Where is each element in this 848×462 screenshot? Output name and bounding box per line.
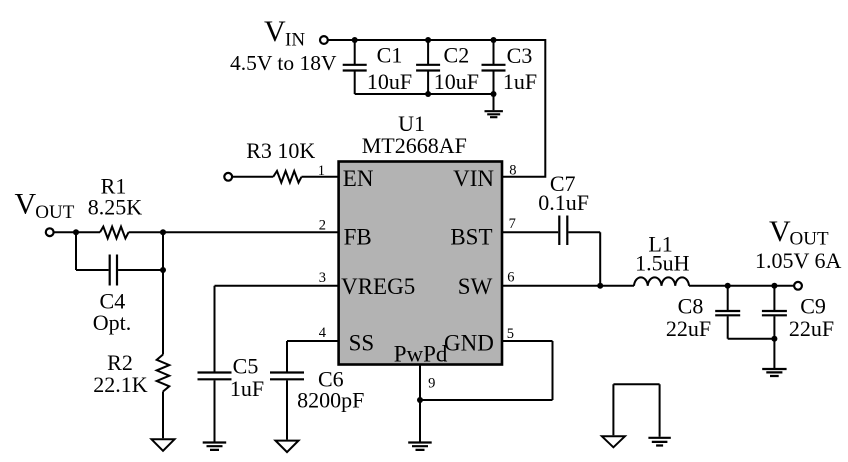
svg-text:OUT: OUT bbox=[790, 229, 829, 250]
svg-text:VREG5: VREG5 bbox=[341, 274, 415, 299]
svg-text:8: 8 bbox=[509, 162, 516, 178]
svg-text:SS: SS bbox=[349, 331, 375, 356]
svg-text:4.5V to 18V: 4.5V to 18V bbox=[230, 51, 337, 75]
svg-text:V: V bbox=[264, 15, 286, 48]
svg-text:EN: EN bbox=[343, 166, 374, 191]
svg-text:FB: FB bbox=[344, 225, 372, 250]
svg-text:0.1uF: 0.1uF bbox=[538, 190, 589, 215]
svg-text:2: 2 bbox=[319, 218, 326, 234]
svg-text:Opt.: Opt. bbox=[93, 310, 132, 335]
svg-text:VIN: VIN bbox=[453, 166, 494, 191]
svg-text:C3: C3 bbox=[507, 43, 533, 68]
svg-text:R3 10K: R3 10K bbox=[246, 138, 315, 163]
svg-text:3: 3 bbox=[319, 270, 326, 286]
svg-text:7: 7 bbox=[509, 216, 516, 232]
svg-text:22.1K: 22.1K bbox=[93, 372, 148, 397]
svg-text:22uF: 22uF bbox=[789, 316, 834, 341]
svg-text:8.25K: 8.25K bbox=[88, 195, 143, 220]
svg-text:4: 4 bbox=[319, 325, 327, 341]
svg-text:OUT: OUT bbox=[35, 202, 74, 223]
svg-text:IN: IN bbox=[285, 30, 305, 51]
svg-text:1uF: 1uF bbox=[230, 376, 264, 401]
svg-text:9: 9 bbox=[428, 376, 435, 392]
svg-text:C5: C5 bbox=[233, 354, 259, 379]
svg-text:C8: C8 bbox=[678, 294, 704, 319]
svg-text:V: V bbox=[769, 215, 791, 248]
svg-text:1.5uH: 1.5uH bbox=[635, 251, 690, 276]
svg-text:C9: C9 bbox=[800, 294, 826, 319]
svg-text:C1: C1 bbox=[377, 42, 403, 67]
svg-text:BST: BST bbox=[450, 225, 492, 250]
svg-text:22uF: 22uF bbox=[666, 316, 711, 341]
svg-text:1.05V 6A: 1.05V 6A bbox=[755, 248, 841, 273]
svg-text:8200pF: 8200pF bbox=[297, 388, 364, 413]
svg-text:C2: C2 bbox=[444, 42, 470, 67]
svg-text:1: 1 bbox=[318, 163, 325, 179]
svg-text:10uF: 10uF bbox=[434, 69, 479, 94]
svg-text:MT2668AF: MT2668AF bbox=[362, 133, 467, 158]
svg-text:SW: SW bbox=[458, 274, 493, 299]
svg-text:PwPd: PwPd bbox=[394, 342, 448, 367]
svg-text:6: 6 bbox=[507, 269, 514, 285]
svg-text:10uF: 10uF bbox=[367, 69, 412, 94]
svg-text:V: V bbox=[15, 188, 37, 221]
svg-text:GND: GND bbox=[444, 331, 494, 356]
svg-text:1uF: 1uF bbox=[503, 69, 537, 94]
svg-text:5: 5 bbox=[507, 326, 514, 342]
